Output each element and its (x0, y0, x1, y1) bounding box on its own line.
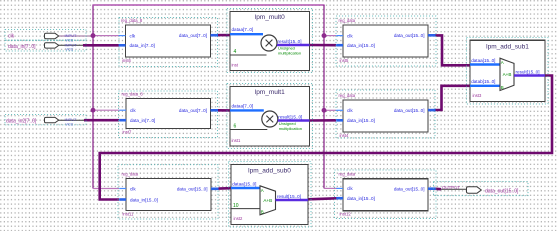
wire clk from input pin (59, 35, 94, 37)
junction clk-mid-right (322, 108, 327, 113)
wire reg11 data_out to addsub0 dataa (219, 187, 232, 190)
junction clk-input (91, 33, 96, 38)
svg-text:data_out[15..0]: data_out[15..0] (394, 187, 425, 192)
wire reg12 data_out to output pin (436, 188, 442, 191)
svg-text:clk: clk (347, 108, 353, 113)
svg-text:reg_data_8: reg_data_8 (121, 18, 143, 23)
svg-text:clk: clk (130, 33, 136, 38)
svg-text:dataa[7..0]: dataa[7..0] (232, 27, 254, 32)
svg-text:lpm_add_sub0: lpm_add_sub0 (248, 168, 291, 175)
svg-text:reg_data: reg_data (339, 172, 356, 177)
svg-text:data_in[15..0]: data_in[15..0] (347, 43, 375, 48)
multiplier block lpm_mult0 inst (227, 9, 313, 73)
svg-text:data_in2[7..0]: data_in2[7..0] (6, 119, 37, 125)
svg-text:inst1: inst1 (232, 138, 242, 143)
wire clk to reg inst11 (93, 188, 119, 190)
wire clk top route horizontal (92, 4, 324, 6)
register block reg_data inst12 (335, 170, 437, 219)
wire addsub0 result to reg12 data_in (308, 198, 337, 199)
svg-text:clk: clk (347, 33, 353, 38)
svg-text:lpm_add_sub1: lpm_add_sub1 (486, 43, 529, 50)
svg-text:multiplication: multiplication (278, 51, 301, 56)
svg-text:dataa[15..0]: dataa[15..0] (471, 58, 495, 63)
svg-text:B: B (261, 209, 264, 214)
svg-text:6: 6 (234, 124, 237, 130)
wire reg6 data_out to mult0 dataa (218, 34, 230, 37)
svg-text:clk: clk (130, 108, 136, 113)
svg-text:INPUT: INPUT (65, 117, 78, 122)
svg-text:inst12: inst12 (340, 212, 352, 217)
svg-text:A+B: A+B (263, 198, 272, 203)
input pin data_in[7..0] (5, 40, 86, 51)
svg-text:lpm_mult1: lpm_mult1 (255, 89, 285, 96)
adder block lpm_add_sub0 inst2 (229, 162, 312, 228)
svg-text:VCC: VCC (66, 48, 74, 52)
svg-text:result[15..0]: result[15..0] (277, 194, 301, 199)
wire reg4 data_out to addsub1 datab (436, 86, 471, 110)
wire reg5 data_out to addsub1 dataa (436, 35, 471, 65)
svg-text:data_out[7..0]: data_out[7..0] (179, 33, 207, 38)
output pin data_out[15..0] (434, 182, 529, 196)
input pin data_in2[7..0] (5, 115, 86, 125)
svg-text:data_out[15..0]: data_out[15..0] (485, 188, 519, 194)
svg-text:4: 4 (234, 49, 237, 55)
register block reg_data inst11 (118, 165, 219, 219)
register block reg_data_8 inst7 (119, 91, 219, 138)
junction clk-mid-left (91, 108, 96, 113)
register block reg_data_8 inst6 (119, 18, 218, 67)
wire clk to reg inst12 (324, 187, 337, 189)
svg-text:inst6: inst6 (122, 58, 132, 63)
svg-text:reg_data: reg_data (122, 171, 139, 176)
svg-text:INPUT: INPUT (65, 42, 78, 47)
register block reg_data inst4 (336, 90, 436, 138)
svg-text:A+B: A+B (503, 72, 512, 77)
wire clk to reg inst5 (324, 35, 336, 37)
svg-text:reg_data: reg_data (339, 18, 356, 23)
svg-text:inst2: inst2 (234, 216, 244, 221)
wire data_in2 bus row2 (59, 119, 85, 121)
svg-text:OUTPUT: OUTPUT (442, 185, 460, 190)
svg-text:result[15..0]: result[15..0] (516, 69, 540, 74)
input pin clk (5, 30, 86, 41)
multiplier block lpm_mult1 inst1 (227, 84, 313, 149)
svg-text:data_in[15..0]: data_in[15..0] (347, 118, 375, 123)
svg-text:clk: clk (347, 186, 353, 191)
svg-text:result[15..0]: result[15..0] (278, 39, 302, 44)
svg-text:inst4: inst4 (340, 133, 350, 138)
svg-text:B: B (501, 85, 504, 90)
wire mult0 result to reg5 data_in (310, 44, 337, 47)
svg-text:inst7: inst7 (123, 129, 133, 134)
svg-text:data_in[7..0]: data_in[7..0] (130, 43, 155, 48)
svg-text:inst5: inst5 (340, 58, 350, 63)
svg-text:data_in[7..0]: data_in[7..0] (8, 44, 36, 50)
wire mult1 result to reg4 data_in (310, 119, 337, 122)
svg-text:result[15..0]: result[15..0] (278, 114, 302, 119)
svg-text:clk: clk (8, 34, 15, 40)
svg-text:A: A (501, 60, 504, 65)
svg-text:multiplication: multiplication (279, 126, 302, 131)
svg-text:data_out[15..0]: data_out[15..0] (394, 108, 425, 113)
wire clk to reg inst7 (93, 109, 119, 111)
svg-text:data_out[15..0]: data_out[15..0] (394, 33, 425, 38)
svg-text:INPUT: INPUT (65, 33, 78, 38)
svg-text:data_in[7..0]: data_in[7..0] (130, 118, 155, 123)
wire clk trunk right vertical (323, 5, 325, 188)
register block reg_data inst5 (336, 16, 436, 66)
junction clk-top-right (322, 33, 327, 38)
wire addsub1 result to reg11 data_in long feedback (100, 76, 552, 200)
wire data_in bus row1 (59, 44, 84, 46)
svg-text:inst: inst (232, 63, 239, 68)
svg-text:dataa[7..0]: dataa[7..0] (232, 103, 254, 108)
svg-text:clk: clk (130, 186, 136, 191)
svg-text:inst3: inst3 (473, 93, 483, 98)
svg-text:inst11: inst11 (123, 211, 135, 216)
svg-text:data_in[15..0]: data_in[15..0] (130, 197, 158, 202)
svg-text:10: 10 (233, 203, 239, 209)
svg-text:data_in[15..0]: data_in[15..0] (347, 196, 375, 201)
wire clk trunk left vertical (92, 5, 94, 189)
svg-text:VCC: VCC (66, 123, 74, 127)
svg-text:reg_data_8: reg_data_8 (122, 91, 144, 96)
wire clk to reg inst6 (93, 35, 119, 37)
svg-text:lpm_mult0: lpm_mult0 (255, 14, 285, 21)
svg-text:data_out[15..0]: data_out[15..0] (177, 187, 208, 192)
wire reg7 data_out to mult1 dataa (218, 109, 230, 112)
svg-text:datab[15..0]: datab[15..0] (471, 79, 495, 84)
svg-text:A: A (261, 188, 264, 193)
svg-text:reg_data: reg_data (339, 93, 356, 98)
wire clk to reg inst4 (324, 109, 336, 111)
svg-text:data_out[7..0]: data_out[7..0] (179, 108, 207, 113)
adder block lpm_add_sub1 inst3 (467, 38, 549, 105)
svg-text:dataa[15..0]: dataa[15..0] (232, 181, 256, 186)
